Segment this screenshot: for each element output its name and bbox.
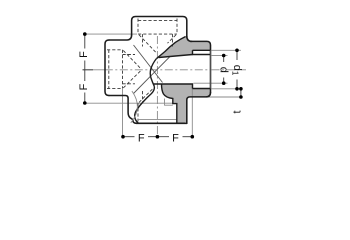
thin transition arc bottom-left corner <box>131 91 138 123</box>
bottom socket right wall edges <box>162 84 177 123</box>
extension line: d top (y=55) <box>212 55 228 57</box>
hidden cone transition bottom socket (dashed, view half) <box>139 89 153 102</box>
dimension: bottom horizontal F/F line <box>123 136 192 138</box>
thin notch lines: socket shoulder edge through bore <box>165 99 173 106</box>
through-bore top edge <box>159 55 193 58</box>
extension line: bottom dim left (x=122.5) <box>122 89 124 137</box>
inner fillet top-left + left arm top edge <box>109 35 132 40</box>
dimension dots: bottom F line <box>121 135 125 139</box>
extension line: d bottom (y=83.5) <box>194 82 228 84</box>
body outline: top socket collar <box>105 17 211 124</box>
tick at center <box>83 69 94 71</box>
right collar face <box>191 41 211 92</box>
extension line: d1 top (y=50) <box>212 49 241 51</box>
wavy break line (middle S through center) <box>150 59 156 87</box>
top collar: face + sides <box>132 17 187 38</box>
extension line: top socket depth (y=34.1) <box>85 33 137 35</box>
wavy break line (top part, left edge of top-right gray) <box>157 37 186 59</box>
extension line: bottom socket depth (y=103) <box>85 102 173 104</box>
extension line: d1 bottom / t top (y=88.8) <box>212 88 241 90</box>
section fill bottom-right (cut wall of right+bottom sockets, gray L) <box>162 84 211 123</box>
centerline horizontal right side <box>212 69 247 71</box>
bottom collar left edge <box>137 122 187 124</box>
wavy break line (bottom part) <box>135 86 155 123</box>
diagonal X lines on central boss <box>134 45 163 83</box>
hidden cone transition top socket (dashed V) <box>139 35 156 53</box>
dimension: d1 vertical line <box>236 50 238 60</box>
extension line: bottom dim right (x=192.3) <box>191 84 193 137</box>
left socket bore rect <box>107 49 123 51</box>
socket bottom top <box>193 50 211 54</box>
top through-bore dashes <box>142 34 144 46</box>
bottom face handled above; bottom collar right edge <box>187 93 211 124</box>
gray inner edge bottom (socket bore) <box>193 88 211 90</box>
socket bottom bottom <box>154 84 193 89</box>
svg-text:F: F <box>138 132 145 144</box>
left collar: face <box>105 40 109 96</box>
svg-text:F: F <box>172 132 179 144</box>
left arm bottom edge to step <box>109 96 137 124</box>
svg-text:t: t <box>232 110 244 113</box>
left through-bore dashes <box>123 54 136 56</box>
top-right slope (outer surface transition) <box>187 36 192 41</box>
section fill top-right (cut wall of right socket, gray) <box>158 36 211 57</box>
dimension: left vertical F/F line <box>83 34 94 103</box>
dimension: t vertical line <box>240 89 242 97</box>
centerline horizontal inside body <box>105 69 211 71</box>
svg-text:F: F <box>78 83 90 90</box>
svg-text:F: F <box>78 51 90 58</box>
hidden cone transition left socket (dashed V) <box>123 51 140 69</box>
gray inner edge top (socket bore) <box>193 49 211 51</box>
section internal thick edges: right socket bottom + through-bore walls <box>154 50 211 123</box>
extension line: horizontal centerline left of body <box>83 69 105 71</box>
dimension end dots: left F line <box>83 32 87 36</box>
centerline vertical <box>156 36 158 137</box>
bottom socket chamfer line (y=119.5) <box>138 119 177 121</box>
thin face line across right bore <box>210 50 212 88</box>
hidden dashed: top socket bore rect <box>107 19 177 122</box>
dimension: d vertical line <box>223 56 225 63</box>
bottom socket bore dashes (view half) <box>137 103 139 121</box>
svg-text:d: d <box>217 67 229 73</box>
extension line: t bottom (y=97) <box>207 96 241 98</box>
